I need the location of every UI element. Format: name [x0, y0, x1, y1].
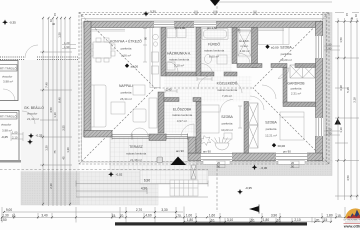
svg-text:75: 75: [53, 150, 57, 154]
svg-text:3,98 m²: 3,98 m²: [2, 129, 12, 133]
svg-text:15: 15: [345, 12, 349, 16]
svg-text:6,60 m²: 6,60 m²: [209, 55, 219, 59]
svg-text:mázas kerámia: mázas kerámia: [169, 58, 190, 62]
svg-text:parketta: parketta: [266, 127, 277, 131]
svg-text:-0,35: -0,35: [245, 186, 252, 190]
svg-text:1,00: 1,00: [186, 213, 192, 217]
svg-text:3,30: 3,30: [161, 208, 167, 212]
svg-text:GARDROB: GARDROB: [287, 82, 305, 86]
svg-text:mázas kerámia: mázas kerámia: [204, 49, 225, 53]
svg-text:10,23 m²: 10,23 m²: [221, 128, 233, 132]
svg-text:1,90: 1,90: [64, 45, 70, 49]
svg-text:3,98 m²: 3,98 m²: [3, 80, 13, 84]
svg-text:viacolor: viacolor: [1, 123, 11, 127]
svg-text:1,10: 1,10: [53, 112, 57, 118]
svg-text:1,50: 1,50: [58, 32, 62, 38]
svg-text:1,10: 1,10: [339, 127, 343, 133]
svg-text:mázas kerámia: mázas kerámia: [126, 152, 147, 156]
svg-text:1,80: 1,80: [263, 218, 269, 222]
svg-text:90: 90: [217, 164, 221, 168]
svg-text:10,: 10,: [277, 218, 282, 222]
svg-text:90: 90: [237, 28, 241, 32]
svg-text:15: 15: [324, 218, 328, 222]
svg-text:2,70: 2,70: [136, 208, 142, 212]
svg-text:4,60: 4,60: [145, 213, 151, 217]
svg-text:2,31 m²: 2,31 m²: [291, 92, 301, 96]
svg-text:±0,00: ±0,00: [278, 144, 286, 148]
svg-text:am 90: am 90: [176, 149, 184, 153]
svg-text:3,10 m²: 3,10 m²: [174, 64, 184, 68]
svg-text:70,: 70,: [120, 214, 125, 218]
svg-text:1,00: 1,00: [12, 131, 18, 135]
svg-text:parketta: parketta: [291, 87, 302, 91]
svg-text:mázas kerámia: mázas kerámia: [172, 113, 193, 117]
svg-text:OTTHONTERV KFT: OTTHONTERV KFT: [344, 220, 360, 222]
svg-text:5,19: 5,19: [346, 87, 350, 93]
svg-text:4,50: 4,50: [49, 107, 53, 113]
svg-text:RTI TÁROLÓ: RTI TÁROLÓ: [0, 66, 18, 71]
svg-text:1,60: 1,60: [209, 213, 215, 217]
svg-text:3,55: 3,55: [62, 125, 66, 131]
svg-text:40: 40: [350, 16, 354, 20]
svg-text:RTI TÁROLÓ: RTI TÁROLÓ: [0, 114, 18, 119]
svg-text:±0,00: ±0,00: [131, 65, 139, 69]
svg-text:viacolor: viacolor: [2, 75, 12, 79]
svg-text:3,40: 3,40: [41, 213, 47, 217]
svg-text:HÁZIMUNKA H.: HÁZIMUNKA H.: [167, 52, 191, 56]
svg-text:- 0,30: - 0,30: [260, 166, 268, 170]
svg-text:70,: 70,: [177, 214, 182, 218]
svg-text:SZOBA: SZOBA: [280, 46, 292, 50]
svg-text:3,90: 3,90: [271, 213, 277, 217]
svg-text:ELŐSZOBA: ELŐSZOBA: [173, 107, 192, 112]
svg-text:10: 10: [354, 13, 358, 17]
svg-text:TERASZ: TERASZ: [129, 145, 142, 149]
svg-text:parketta: parketta: [281, 52, 292, 56]
svg-text:viacolor: viacolor: [27, 112, 37, 116]
svg-text:3,18: 3,18: [339, 85, 343, 91]
svg-text:8,40: 8,40: [58, 97, 62, 103]
svg-text:-0,25: -0,25: [1, 135, 8, 139]
svg-text:10,: 10,: [211, 218, 216, 222]
svg-text:4,97 m²: 4,97 m²: [177, 119, 187, 123]
svg-text:90: 90: [291, 164, 295, 168]
svg-text:-0,35: -0,35: [9, 21, 16, 25]
svg-text:20,: 20,: [316, 218, 321, 222]
svg-text:15: 15: [53, 12, 57, 16]
svg-text:15,: 15,: [337, 214, 342, 218]
svg-text:10: 10: [49, 18, 53, 22]
svg-text:21,38 m²: 21,38 m²: [130, 158, 142, 162]
svg-text:pm 90: pm 90: [283, 150, 291, 154]
svg-text:SZOBA: SZOBA: [221, 115, 233, 119]
svg-text:2,10: 2,10: [12, 136, 18, 140]
svg-text:10,: 10,: [12, 214, 17, 218]
svg-text:NAPPALI: NAPPALI: [119, 84, 133, 88]
svg-text:1,30: 1,30: [2, 213, 8, 217]
svg-text:2,10: 2,10: [294, 218, 300, 222]
svg-text:2,30: 2,30: [49, 183, 53, 189]
svg-text:parketta: parketta: [222, 122, 233, 126]
svg-text:1,80: 1,80: [326, 213, 332, 217]
svg-text:1,80: 1,80: [187, 218, 193, 222]
svg-text:parketta: parketta: [121, 91, 132, 95]
svg-text:10,: 10,: [251, 218, 256, 222]
svg-text:1,90: 1,90: [326, 47, 332, 51]
svg-text:±0,00: ±0,00: [271, 46, 279, 50]
svg-text:12,21 m²: 12,21 m²: [265, 134, 277, 138]
svg-text:parketta: parketta: [121, 47, 132, 51]
svg-text:3,10: 3,10: [227, 218, 233, 222]
svg-text:4,90: 4,90: [141, 187, 147, 191]
svg-text:ÉLÉSK.: ÉLÉSK.: [239, 38, 250, 43]
svg-text:7,40: 7,40: [45, 82, 49, 88]
svg-text:mázas kerámia: mázas kerámia: [217, 88, 238, 92]
svg-text:7,26 m²: 7,26 m²: [222, 94, 232, 98]
svg-text:21,42 m²: 21,42 m²: [27, 117, 39, 121]
svg-text:1,50: 1,50: [339, 37, 343, 43]
svg-text:45: 45: [62, 156, 66, 160]
svg-text:pm 1,90: pm 1,90: [175, 26, 186, 30]
svg-text:m.ker.: m.ker.: [240, 44, 248, 48]
svg-text:0,30: 0,30: [150, 10, 156, 14]
svg-text:26,34 m²: 26,34 m²: [120, 97, 132, 101]
svg-text:GK. BEÁLLÓ: GK. BEÁLLÓ: [24, 105, 44, 110]
svg-text:15,: 15,: [112, 214, 117, 218]
svg-text:6,90: 6,90: [144, 179, 150, 183]
svg-text:9,66 m²: 9,66 m²: [121, 54, 131, 58]
svg-text:4,50: 4,50: [346, 175, 350, 181]
svg-text:9,00: 9,00: [6, 208, 12, 212]
svg-text:SZOBA: SZOBA: [265, 121, 277, 125]
svg-text:FÜRDŐ: FÜRDŐ: [208, 42, 220, 47]
svg-text:1,50: 1,50: [0, 218, 6, 222]
svg-text:2,40: 2,40: [166, 88, 172, 92]
svg-text:-0,02: -0,02: [116, 173, 123, 177]
svg-text:1,90: 1,90: [326, 132, 332, 136]
svg-text:pm 1,50: pm 1,50: [207, 26, 218, 30]
svg-text:am 90: am 90: [203, 150, 211, 154]
svg-text:3,18: 3,18: [353, 97, 357, 103]
svg-text:1,40 m²: 1,40 m²: [239, 49, 249, 53]
svg-text:1,30: 1,30: [66, 147, 70, 153]
svg-text:10,20 m²: 10,20 m²: [280, 58, 292, 62]
svg-text:KONYHA + ÉTKEZŐ: KONYHA + ÉTKEZŐ: [110, 39, 142, 44]
svg-text:1,30: 1,30: [45, 145, 49, 151]
svg-text:KÖZLEKEDŐ: KÖZLEKEDŐ: [217, 81, 238, 86]
svg-text:90: 90: [144, 36, 148, 40]
svg-text:www.otthont: www.otthont: [343, 225, 360, 229]
